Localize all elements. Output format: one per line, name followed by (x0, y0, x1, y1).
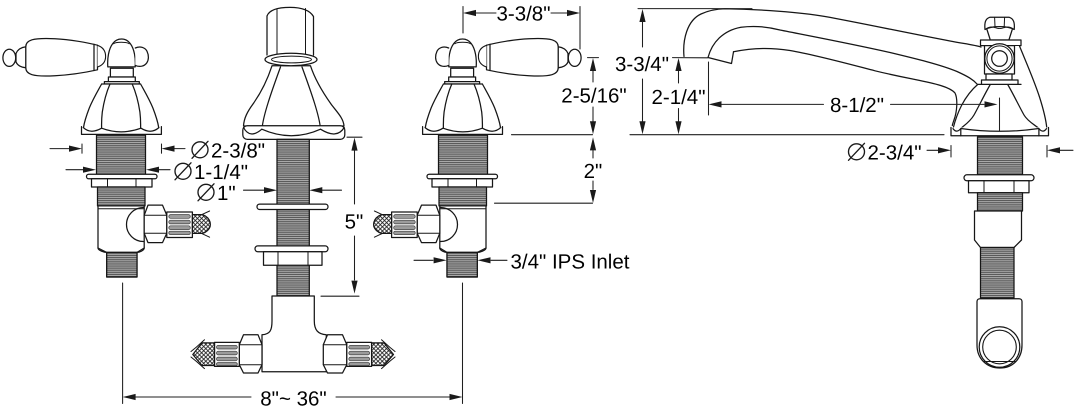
side bell (955, 84, 1045, 131)
tee right braided hose (372, 343, 394, 366)
compression sleeve (167, 212, 193, 238)
spout bell rim (243, 126, 345, 140)
rim scallop arcs (83, 128, 159, 132)
housing circles (985, 44, 1014, 73)
smooth cylinder (975, 211, 1022, 248)
dim 2 (495, 151, 594, 204)
side rim scallops (953, 129, 1047, 136)
handle stem (110, 68, 133, 77)
bonnet skirt edge (1020, 46, 1047, 128)
lower locknut (264, 252, 323, 266)
handle plate (104, 82, 139, 84)
spout middle curve (708, 26, 977, 84)
side shank threads (978, 137, 1023, 175)
svg-text:1-1/4": 1-1/4" (194, 161, 248, 184)
hose fray lines (201, 211, 210, 237)
bonnet hex cap (985, 17, 1015, 29)
narrow threads (981, 248, 1015, 299)
side washer (964, 175, 1034, 181)
side bell rim (951, 128, 1049, 136)
bell bottom rim (82, 127, 162, 135)
lower body with eye (977, 299, 1022, 368)
tee body (262, 296, 326, 372)
escutcheon bell (84, 84, 159, 131)
handle dome (108, 39, 136, 67)
tee left hex nut (239, 335, 262, 373)
base washer (982, 80, 1019, 85)
dia symbol 2-3/4 (849, 144, 865, 160)
shank threads lower (98, 187, 146, 206)
spout rim scallops (244, 128, 345, 136)
bonnet collar (981, 40, 1022, 46)
spout top curve (684, 9, 981, 57)
dia symbol 2-3/8 (192, 142, 208, 158)
tee left braided hose (193, 343, 215, 366)
handle right ball (135, 47, 148, 66)
mounting washer (87, 174, 158, 179)
handle lever neck (16, 47, 26, 68)
tee right hex nut (323, 335, 347, 373)
svg-text:5": 5" (345, 211, 364, 234)
svg-text:3-3/8": 3-3/8" (496, 2, 550, 25)
svg-text:2-3/4": 2-3/4" (868, 142, 922, 165)
mounting locknut (92, 179, 153, 187)
spout bell (244, 66, 345, 126)
svg-text:2-3/8": 2-3/8" (211, 140, 265, 163)
svg-text:2": 2" (584, 160, 603, 183)
handle collar (108, 77, 135, 82)
dim 8-1/2 (709, 62, 1000, 131)
spout tube top (267, 7, 314, 55)
spout lower contour (734, 49, 957, 126)
dim 2-1/4 (673, 58, 708, 122)
svg-text:2-5/16": 2-5/16" (561, 84, 626, 107)
bonnet skirt right (1015, 46, 1047, 128)
dim dia 1-1/4 (66, 169, 170, 171)
side threads 2 (978, 193, 1023, 211)
dim 2-5/16 (512, 58, 599, 135)
dim 3-3/8 (463, 7, 580, 50)
upper washer (257, 204, 328, 209)
ball housing (985, 46, 1015, 74)
dia symbol 1 (198, 184, 214, 200)
diameter symbols (175, 141, 865, 201)
dim dia 2-3/4 (927, 146, 1073, 158)
dim 8-36 (123, 283, 463, 404)
dim dia 1 (244, 189, 342, 191)
shank threads upper (97, 135, 146, 174)
dia symbol 1-1/4 (175, 163, 191, 179)
svg-text:8-1/2": 8-1/2" (830, 94, 884, 117)
svg-text:1": 1" (217, 182, 236, 205)
dim 3-3/4 (642, 22, 644, 122)
valve hex back arc (127, 208, 144, 242)
svg-text:2-1/4": 2-1/4" (651, 86, 705, 109)
bonnet neck (987, 29, 1013, 40)
valve body (98, 206, 144, 253)
dim 5 (321, 137, 362, 296)
lower collar (986, 74, 1012, 80)
svg-text:3-3/4": 3-3/4" (615, 53, 669, 76)
side top ref line (638, 8, 752, 10)
handle lever body (26, 38, 98, 75)
bell drape lines (102, 84, 141, 128)
spout beak step (708, 52, 734, 64)
tee right sleeve (347, 342, 372, 366)
valve side hex nut (144, 205, 167, 243)
spout collar ring (265, 53, 317, 65)
spout shank threads (277, 139, 309, 296)
svg-text:3/4" IPS Inlet: 3/4" IPS Inlet (511, 251, 630, 274)
outlet threads (98, 248, 144, 277)
lever ferrule (93, 44, 95, 70)
dim dia 2-3/8 (50, 144, 185, 153)
spout bell drapes (262, 67, 321, 129)
side bell drapes (961, 85, 1039, 128)
dim 3/4 IPS (414, 259, 507, 261)
lever end cap (98, 45, 106, 67)
side locknut (969, 181, 1030, 193)
svg-text:8"~ 36": 8"~ 36" (260, 387, 326, 410)
lower washer (255, 246, 328, 252)
handle lever tip ball (3, 49, 16, 66)
eye circles (979, 327, 1020, 368)
side deck line (630, 134, 944, 136)
braided hose stub (192, 215, 210, 234)
tee left sleeve (215, 342, 240, 366)
